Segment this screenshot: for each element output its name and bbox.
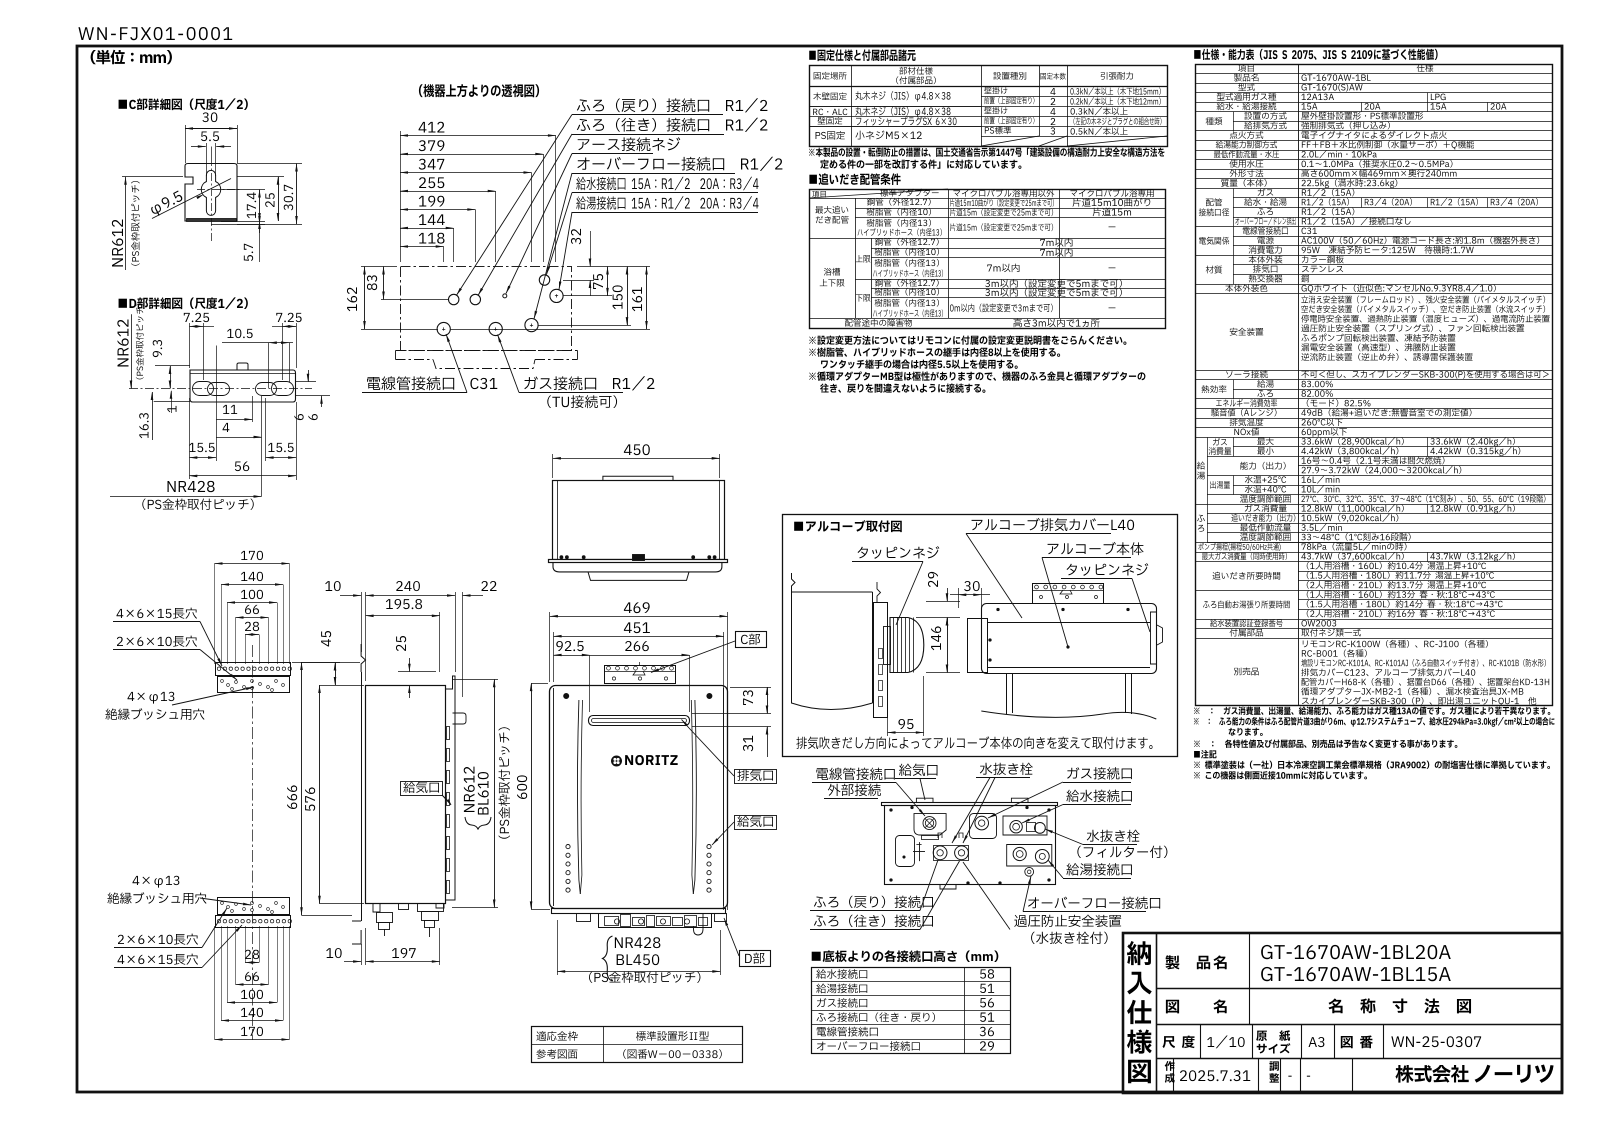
- spec row shitsuryo: [1195, 188, 1552, 190]
- section header kotei shiyo: [809, 49, 915, 61]
- bottom view bottom tabs: [940, 885, 956, 889]
- front view dim 31: [743, 736, 753, 752]
- D-detail dim 15.5 left: [189, 443, 215, 452]
- D-detail centerline horizontal: [129, 388, 312, 390]
- D-detail left slot pair: [193, 382, 214, 396]
- front view kyukiko label: [737, 815, 773, 827]
- D-detail NR612 label: [131, 314, 133, 388]
- front view dim 469: [624, 602, 650, 613]
- title block scale row: [1156, 1058, 1562, 1060]
- alcove caption: [796, 736, 1152, 749]
- side view vertical dim 576: [305, 787, 315, 810]
- D-detail right slot pair: [256, 383, 277, 396]
- spec row anzen-sochi: [1195, 370, 1552, 372]
- spec group denki: [1233, 236, 1552, 238]
- spec row ondo-chosetsu kyuto: [1195, 504, 1552, 506]
- C-detail keyhole slot: [201, 170, 220, 215]
- alcove right top bracket: [1033, 584, 1104, 604]
- top view leader labels right: [577, 98, 768, 112]
- bottom view furo connections: [933, 846, 947, 860]
- alcove small screws dots: [997, 608, 1000, 611]
- front view dim 73: [743, 690, 753, 705]
- alcove exhaust cover ribbed: [890, 618, 924, 673]
- bottom label kyuto: [1066, 863, 1132, 876]
- alcove outer box: [783, 515, 1178, 757]
- bottom label overflow: [1028, 897, 1160, 910]
- side view dim 25: [396, 636, 406, 651]
- alcove label tapping right: [1067, 563, 1149, 576]
- bottom label mizunuki-sen top: [980, 763, 1033, 775]
- title block product name row: [1156, 988, 1562, 990]
- bottom label kaatsu: [1014, 915, 1121, 927]
- D-detail top tab: [237, 363, 248, 370]
- upper mounting plate: [216, 663, 291, 676]
- front view bottom valve assembly: [599, 914, 712, 928]
- bottom label kyusui: [1066, 790, 1132, 803]
- front view bottom flange: [552, 909, 726, 914]
- top elevation screws on flange: [560, 556, 563, 559]
- C-detail bracket body: [185, 164, 237, 222]
- section header sokoita header: [812, 950, 999, 962]
- spec row seihinmei: [1195, 83, 1552, 85]
- spec row shiyo-suiatsu: [1195, 169, 1552, 171]
- bottom view small fittings: [938, 833, 942, 838]
- spec rows jido-oyubari: [1298, 599, 1552, 601]
- section header oidaki haikan: [809, 173, 900, 185]
- drawing number WN-FJX01-0001: [78, 27, 232, 40]
- alcove dim 146: [931, 626, 941, 650]
- spec row pump: [1195, 552, 1552, 554]
- C-detail dim 5.7: [259, 221, 261, 233]
- unit note (tanni mm): [91, 50, 172, 65]
- spec row solar: [1195, 379, 1552, 381]
- side view NR612 BL610 dim: [494, 679, 496, 907]
- spec group furo: [1207, 513, 1552, 515]
- side view kyukiko label: [403, 781, 439, 793]
- alcove section header: [794, 520, 902, 532]
- plates centerline: [252, 645, 254, 1040]
- spec row energy: [1195, 408, 1552, 410]
- lower plate labels: [133, 876, 180, 888]
- front view dim 600: [517, 775, 527, 799]
- bottom view electric box: [914, 814, 946, 835]
- front view door seam arcs: [577, 700, 580, 894]
- bottom label gas setuzoku: [1067, 767, 1132, 780]
- front view dim 451: [624, 622, 650, 633]
- bottom view screws corners: [890, 809, 893, 812]
- side view mount rail: [446, 676, 456, 900]
- top view horizontal dims stack: [419, 122, 445, 133]
- notes below oidaki table: [809, 335, 1126, 344]
- spec group haikan-setsuzoku: [1233, 197, 1552, 199]
- D-detail section header: [119, 297, 248, 309]
- bottom view body: [885, 806, 1056, 885]
- bottom label mizunuki filter: [1087, 830, 1140, 842]
- top elevation bottom flange: [549, 560, 728, 563]
- front view D-bu label box: [740, 951, 771, 967]
- side view wall hatch at bottom: [352, 930, 361, 944]
- D-detail dim 1: [171, 391, 173, 413]
- spec rows oidaki-jikan: [1298, 571, 1552, 573]
- front view body: [550, 686, 728, 909]
- bottom label furo yuki: [814, 915, 933, 928]
- front view dim 266: [625, 641, 649, 651]
- top view small cross marks on circles: [442, 329, 445, 331]
- spec group kyuto: [1233, 446, 1552, 448]
- spec group shurui: [1233, 121, 1552, 123]
- oidaki last row: [845, 319, 912, 327]
- C-detail dim 30.7: [237, 163, 302, 165]
- top view title: [419, 84, 539, 97]
- top view connection circles: [449, 294, 459, 304]
- fixing table header texts: [814, 72, 847, 80]
- fixing table row RC-ALC: [813, 109, 847, 115]
- bottom view hot water outlet group: [1007, 845, 1052, 867]
- Noritz company logo: [1395, 1065, 1468, 1083]
- front view vent hole columns: [566, 845, 570, 849]
- D-detail dim 4: [223, 423, 230, 432]
- C-detail dim 25: [237, 176, 284, 178]
- bottom labels left: [816, 768, 894, 781]
- section header shiyo-noryoku-hyo: [1194, 49, 1437, 60]
- C-detail dim 5.5: [201, 131, 219, 141]
- alcove right screw detail: [1150, 612, 1157, 664]
- side view rail tab: [453, 713, 467, 724]
- oidaki rows yokuso: [824, 268, 840, 276]
- spec rows shutsuto: [1233, 485, 1552, 487]
- spec row max gas: [1195, 561, 1552, 563]
- alcove dim 30: [964, 581, 980, 591]
- front view C-bu label box: [736, 632, 767, 648]
- front view dim 92.5: [556, 641, 583, 651]
- spec rows noryoku: [1298, 465, 1552, 467]
- front view top screws: [564, 693, 569, 698]
- C-detail section header: [119, 98, 248, 110]
- side view bottom pipes: [373, 904, 380, 912]
- D-detail dim 7.25 left: [184, 313, 209, 322]
- D-detail plate body: [190, 370, 296, 402]
- D-detail dim 15.5 right: [268, 443, 294, 452]
- D-detail dim 7.25 right: [276, 313, 301, 322]
- title block outer: [1123, 933, 1562, 1093]
- bottom view water inlet group: [1003, 816, 1047, 835]
- top view bottom labels: [367, 376, 497, 390]
- bottom label kyukiko: [899, 764, 938, 776]
- lower mounting plate: [218, 898, 290, 915]
- C-detail dim 30: [202, 112, 217, 122]
- alcove label honban: [1048, 542, 1144, 555]
- C-detail NR612 dim arrow: [122, 176, 183, 178]
- spec row gaisoshoku: [1195, 293, 1552, 295]
- bottom view top tabs: [916, 798, 933, 802]
- spec row soon: [1195, 418, 1552, 420]
- C-detail NR612 labels: [112, 220, 123, 267]
- alcove dim 29: [928, 572, 938, 587]
- side view vertical dim 666: [287, 785, 297, 809]
- fixing table row moku-kabe: [813, 92, 846, 100]
- front view haikiko label: [737, 769, 773, 781]
- D-detail dim 56: [235, 461, 249, 471]
- spec row seigyo: [1195, 150, 1552, 152]
- oidaki table grid: [810, 190, 1166, 329]
- alcove right legs and wavy bottom: [1006, 674, 1008, 714]
- D-detail dim 9.3: [153, 340, 162, 357]
- top elevation skirt: [553, 563, 722, 572]
- oidaki rows max: [815, 206, 848, 214]
- alcove wall plate: [874, 603, 888, 718]
- fixing table row PS: [816, 131, 845, 140]
- top view bottom flange dash-dot: [396, 350, 578, 352]
- bottom label furo modori: [814, 896, 933, 909]
- spec header row: [1195, 73, 1552, 75]
- title block vertical label cell: [1156, 933, 1158, 1093]
- spec group zaishitsu: [1233, 264, 1552, 266]
- C-detail centerlines: [211, 158, 213, 243]
- side view body: [366, 686, 446, 904]
- lower plate dims: [245, 950, 259, 959]
- front view exhaust slot: [589, 716, 690, 726]
- spec row betsubaihin: [1195, 705, 1552, 707]
- spec row setsuzoku: [1195, 111, 1552, 113]
- alcove label L40: [972, 518, 1135, 531]
- spec row fuzoku: [1195, 638, 1552, 640]
- spec row ninsho: [1195, 628, 1552, 630]
- top view left vertical dims: [361, 266, 397, 268]
- D-detail dim 11: [223, 405, 237, 414]
- notes below spec table: [1194, 706, 1550, 715]
- alcove right body: [982, 604, 1157, 674]
- spec row NOx: [1195, 437, 1552, 439]
- alcove right left block: [968, 619, 988, 673]
- front view NR428 BL450 labels: [603, 936, 613, 981]
- D-detail dims 6 6: [296, 381, 316, 383]
- C-detail dia 9.5 leader: [152, 179, 231, 219]
- title block zu-mei row: [1156, 1024, 1562, 1026]
- spec row saitei-ryuryo: [1195, 159, 1552, 161]
- bottom view top flange line: [882, 803, 1058, 806]
- alcove label tapping left: [858, 546, 940, 559]
- tekiyo-kanawaku table: [532, 1027, 743, 1063]
- D-detail top strip line: [190, 373, 296, 375]
- side view rail slots: [447, 727, 450, 740]
- fixing table diagonal blanks: [981, 136, 1039, 146]
- upper plate labels: [117, 608, 198, 619]
- top elevation body: [553, 481, 725, 560]
- side view dim 195.8: [386, 599, 422, 609]
- spec table outline and main vertical lines: [1196, 65, 1553, 706]
- spec row haiki-ondo: [1195, 427, 1552, 429]
- oidaki header diagonal: [809, 189, 948, 198]
- alcove left wall: [792, 573, 796, 592]
- side view bottom dims 10 197: [326, 948, 341, 958]
- front view top bracket: [605, 666, 676, 684]
- front view NORITZ logo: [611, 756, 622, 767]
- spec row tenka: [1195, 140, 1552, 142]
- bottom view drain cross: [919, 842, 921, 861]
- fixing table grid: [810, 66, 1168, 147]
- bottom view gas connection: [970, 814, 997, 839]
- note below fixing table: [809, 147, 1165, 156]
- bottom view overflow small circle: [1025, 867, 1034, 876]
- side view wall line: [361, 644, 365, 672]
- D-detail dim 16.3: [152, 392, 154, 415]
- bottom view left cutout: [896, 836, 915, 867]
- alcove dim 95: [898, 719, 913, 729]
- connection height table grid: [812, 968, 1011, 1054]
- spec row gaikei: [1195, 178, 1552, 180]
- dim 45 between plate and sideview: [321, 631, 331, 646]
- top elevation dim 450: [624, 444, 650, 455]
- side view top dims 10 240 22: [325, 581, 340, 591]
- title block date row: [1173, 1059, 1175, 1094]
- upper plate dims: [241, 551, 263, 560]
- spec group netsukoritsu: [1233, 389, 1552, 391]
- top elevation top tab: [603, 476, 673, 480]
- D-detail NR428 label: [168, 481, 215, 492]
- C-detail bottom hatch strip: [187, 219, 237, 222]
- top view right vertical dims: [571, 229, 581, 244]
- spec row gas-shu: [1195, 102, 1552, 104]
- spec row katashiki: [1195, 92, 1552, 94]
- D-detail dim 10.5: [227, 329, 253, 338]
- C-detail dim 17.4: [220, 189, 265, 191]
- top view dashed body outline: [401, 267, 572, 351]
